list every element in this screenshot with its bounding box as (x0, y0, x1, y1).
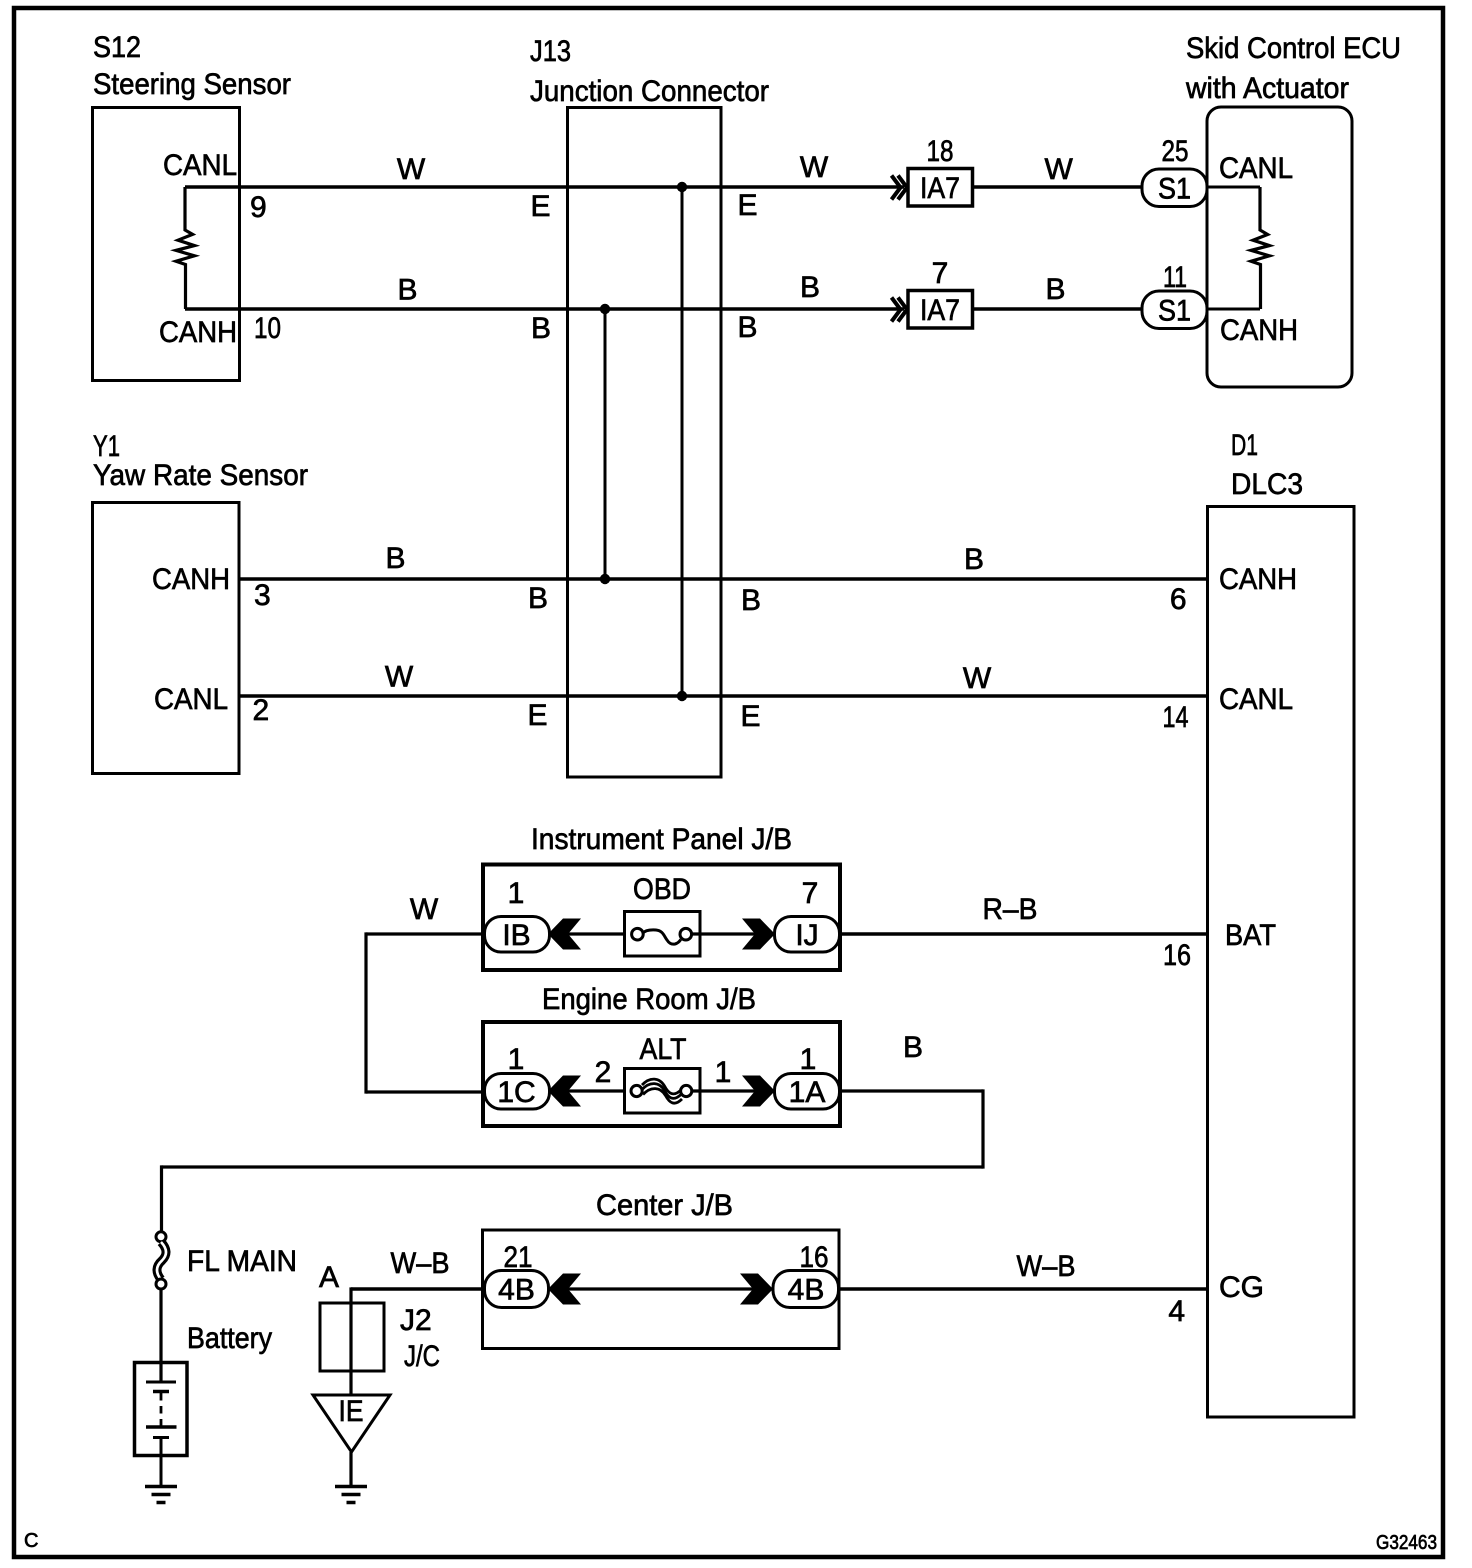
svg-text:E: E (531, 190, 551, 223)
svg-text:Engine Room J/B: Engine Room J/B (542, 983, 756, 1016)
yaw rate sensor Y1 (93, 430, 309, 774)
ECU internal wire CANL (1207, 186, 1260, 189)
svg-text:25: 25 (1162, 135, 1189, 168)
svg-text:1A: 1A (789, 1076, 826, 1109)
svg-text:4B: 4B (788, 1274, 825, 1307)
connector IA7 pin 7 (908, 257, 973, 328)
wire A down through J2 (349, 1287, 352, 1395)
connector 4B pin 21 (485, 1241, 549, 1308)
junction node B bottom (600, 574, 610, 584)
ECU internal wire CANH (1207, 308, 1260, 311)
svg-text:18: 18 (927, 135, 954, 168)
fusible link ALT (625, 1033, 701, 1113)
svg-text:A: A (319, 1261, 339, 1294)
svg-text:OBD: OBD (633, 873, 691, 906)
svg-text:R–B: R–B (983, 893, 1038, 926)
connector 4B pin 16 (773, 1241, 839, 1308)
Y1 pin 2 CANL (154, 683, 269, 727)
svg-text:B: B (385, 542, 405, 575)
svg-text:B: B (531, 312, 551, 345)
wire IE to ground (349, 1452, 352, 1486)
ground battery (145, 1487, 177, 1503)
svg-text:S1: S1 (1158, 173, 1191, 206)
svg-text:Center J/B: Center J/B (596, 1189, 733, 1222)
wire FL MAIN to battery (159, 1289, 162, 1382)
svg-text:Skid Control ECU: Skid Control ECU (1186, 32, 1401, 65)
svg-text:7: 7 (932, 257, 949, 290)
junction node W bottom (677, 691, 687, 701)
svg-text:3: 3 (254, 579, 271, 612)
svg-text:B: B (741, 584, 761, 617)
svg-text:16: 16 (800, 1241, 829, 1274)
svg-text:7: 7 (802, 877, 819, 910)
svg-text:4: 4 (1168, 1295, 1185, 1328)
arrow left center J/B (548, 1274, 581, 1305)
svg-text:Junction Connector: Junction Connector (530, 75, 769, 108)
svg-text:B: B (1045, 273, 1065, 306)
wire B: S12 CANH to IA7 (185, 307, 904, 310)
svg-text:IA7: IA7 (920, 172, 960, 205)
J13 internal wire (B net) (604, 309, 607, 579)
DLC3 pin 14 CANL (1163, 683, 1294, 734)
svg-text:FL MAIN: FL MAIN (187, 1245, 297, 1278)
svg-text:J13: J13 (530, 35, 571, 68)
svg-text:ALT: ALT (640, 1033, 687, 1066)
connector S1 pin 25 (1142, 135, 1207, 207)
resistor (S12 terminating) (176, 187, 195, 309)
svg-text:E: E (528, 699, 548, 732)
svg-text:W: W (1045, 153, 1074, 186)
fusible link FL MAIN (156, 1232, 297, 1289)
svg-text:S12: S12 (93, 31, 141, 64)
arrow right ER J/B (742, 1076, 775, 1107)
DLC3 pin 4 CG (1168, 1271, 1264, 1328)
wire B: 1A to battery feed (162, 1089, 984, 1232)
center J/B (483, 1189, 840, 1349)
connector 1C pin 1 (485, 1043, 550, 1109)
svg-text:J2: J2 (400, 1304, 432, 1337)
svg-text:E: E (741, 700, 761, 733)
svg-text:CANL: CANL (1219, 683, 1293, 716)
svg-text:DLC3: DLC3 (1231, 468, 1303, 501)
svg-text:BAT: BAT (1225, 919, 1276, 952)
wire W: IB to junction left (366, 932, 486, 1093)
connector IA7 pin 18 (908, 135, 973, 206)
svg-text:B: B (397, 274, 417, 307)
svg-text:Battery: Battery (187, 1322, 272, 1355)
svg-text:IA7: IA7 (920, 294, 960, 327)
wire B: IA7 to S1 (973, 307, 1143, 310)
svg-text:21: 21 (504, 1241, 533, 1274)
svg-text:Steering Sensor: Steering Sensor (93, 68, 291, 101)
svg-text:Yaw Rate Sensor: Yaw Rate Sensor (93, 459, 308, 492)
DLC3 pin 6 CANH (1170, 563, 1297, 616)
svg-text:CANL: CANL (154, 683, 228, 716)
battery (135, 1322, 273, 1486)
wire between 4B connectors (566, 1287, 756, 1290)
svg-text:IE: IE (339, 1395, 364, 1428)
ground IE (335, 1487, 367, 1503)
arrow left IP J/B (548, 919, 581, 950)
wire W-B: A to Center J/B (351, 1287, 486, 1290)
svg-text:1: 1 (508, 1043, 525, 1076)
junction node W top (677, 182, 687, 192)
svg-text:B: B (903, 1031, 923, 1064)
svg-text:W: W (800, 151, 829, 184)
svg-text:10: 10 (254, 312, 281, 345)
junction connector J2 J/C (320, 1303, 440, 1373)
svg-text:G32463: G32463 (1376, 1532, 1437, 1554)
svg-text:with Actuator: with Actuator (1185, 72, 1349, 105)
connector 1A pin 1 (775, 1043, 840, 1109)
arrow right center J/B (740, 1274, 773, 1305)
svg-text:E: E (738, 189, 758, 222)
svg-text:D1: D1 (1231, 429, 1258, 462)
svg-text:CANH: CANH (152, 563, 230, 596)
ground connector IE (313, 1395, 390, 1452)
junction connector J13 (530, 35, 769, 777)
svg-text:1C: 1C (497, 1076, 535, 1109)
steering sensor S12 (93, 31, 292, 381)
svg-text:9: 9 (250, 191, 267, 224)
svg-text:CANH: CANH (1219, 563, 1297, 596)
svg-text:1: 1 (715, 1056, 732, 1089)
arrow right IP J/B (742, 919, 775, 950)
S12 pin 9 CANL (163, 149, 267, 224)
connector arrow into IA7 row1 (892, 176, 908, 200)
svg-text:CG: CG (1219, 1271, 1264, 1304)
svg-text:6: 6 (1170, 583, 1187, 616)
svg-text:2: 2 (253, 694, 270, 727)
svg-text:J/C: J/C (404, 1340, 440, 1373)
svg-text:CANL: CANL (163, 149, 237, 182)
svg-text:CANL: CANL (1219, 152, 1293, 185)
svg-text:IB: IB (502, 919, 530, 952)
svg-text:W–B: W–B (391, 1247, 450, 1280)
svg-text:1: 1 (508, 877, 525, 910)
svg-text:B: B (800, 271, 820, 304)
DLC3 D1 (1208, 429, 1355, 1417)
wire W: Y1 CANL to DLC3 (239, 694, 1207, 697)
svg-text:W: W (963, 662, 992, 695)
wire W-B: 4B to DLC3 CG (839, 1287, 1207, 1290)
skid control ECU with actuator (1185, 32, 1401, 387)
connector IB pin 1 (485, 877, 550, 952)
fuse OBD (625, 873, 701, 956)
svg-text:14: 14 (1163, 701, 1189, 734)
DLC3 pin 16 BAT (1163, 919, 1276, 972)
svg-text:W: W (410, 893, 439, 926)
svg-text:11: 11 (1163, 261, 1187, 294)
wire W: IA7 to S1 (973, 185, 1143, 188)
resistor (ECU terminating) (1251, 187, 1270, 309)
wire IB to OBD fuse (566, 932, 632, 935)
S12 pin 10 CANH (159, 312, 281, 349)
svg-text:B: B (528, 582, 548, 615)
Y1 pin 3 CANH (152, 563, 271, 612)
junction node B top (600, 304, 610, 314)
wire OBD fuse to IJ (692, 932, 776, 935)
connector S1 pin 11 (1142, 261, 1207, 329)
svg-text:16: 16 (1163, 939, 1191, 972)
connector IJ pin 7 (775, 877, 840, 952)
svg-text:4B: 4B (498, 1274, 535, 1307)
wire R-B: IJ to DLC3 BAT (839, 932, 1207, 935)
svg-text:1: 1 (800, 1043, 817, 1076)
wire B: Y1 CANH to DLC3 (239, 577, 1207, 580)
svg-text:W: W (385, 661, 414, 694)
arrow left ER J/B (548, 1076, 581, 1107)
engine room J/B (483, 983, 840, 1126)
instrument panel J/B (483, 823, 840, 970)
svg-text:Instrument Panel J/B: Instrument Panel J/B (531, 823, 792, 856)
svg-text:2: 2 (595, 1056, 612, 1089)
J13 internal wire (W net) (681, 187, 684, 696)
svg-text:C: C (24, 1530, 38, 1552)
svg-text:CANH: CANH (1220, 314, 1298, 347)
svg-text:IJ: IJ (795, 919, 818, 952)
wire 1C to ALT (566, 1089, 631, 1092)
wire W: S12 CANL to IA7 (185, 185, 904, 188)
svg-text:B: B (738, 311, 758, 344)
svg-text:S1: S1 (1158, 295, 1191, 328)
svg-text:W: W (397, 153, 426, 186)
svg-text:B: B (964, 543, 984, 576)
svg-text:W–B: W–B (1017, 1250, 1076, 1283)
connector arrow into IA7 row2 (892, 298, 908, 322)
svg-text:CANH: CANH (159, 316, 237, 349)
wire ALT to 1A (692, 1089, 776, 1092)
